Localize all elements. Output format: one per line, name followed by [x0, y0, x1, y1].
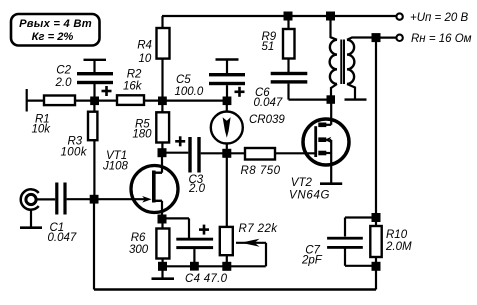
svg-text:CR039: CR039 — [249, 114, 285, 126]
label R5 value — [132, 118, 152, 140]
info box Pvyh/Kg — [11, 14, 100, 46]
label R1 value — [32, 114, 52, 136]
capacitor C5 — [216, 58, 239, 61]
capacitor C4 — [176, 238, 213, 241]
resistor R3 — [93, 101, 95, 112]
resistor R1 — [44, 96, 75, 106]
potentiometer R7 — [226, 153, 228, 227]
svg-text:16k: 16k — [123, 81, 143, 93]
label VT2 VN64G — [289, 177, 330, 201]
svg-text:R6: R6 — [131, 232, 146, 244]
resistor R8 — [227, 152, 245, 154]
junction Rn output node — [372, 33, 381, 42]
junction C3/CR039/R8/R7 — [222, 149, 231, 158]
junction node C5/CR039 — [223, 97, 232, 106]
resistor R2 — [117, 95, 144, 105]
svg-text:C5: C5 — [176, 74, 191, 86]
svg-text:R10: R10 — [386, 229, 408, 241]
svg-text:R2: R2 — [127, 68, 142, 80]
svg-text:2pF: 2pF — [301, 255, 323, 267]
svg-text:0.047: 0.047 — [254, 97, 283, 109]
svg-text:C2: C2 — [56, 64, 71, 76]
capacitor C2 — [84, 59, 107, 61]
wire Rn output lead — [376, 36, 396, 38]
svg-text:VT2: VT2 — [291, 177, 313, 189]
junction R10/C7 bottom — [372, 262, 381, 271]
svg-text:2.0: 2.0 — [188, 183, 206, 195]
svg-text:R4: R4 — [137, 40, 152, 52]
svg-text:R8 750: R8 750 — [241, 165, 281, 177]
label C2 value — [55, 64, 73, 89]
capacitor C6 — [271, 72, 308, 75]
ground VT2 source — [320, 182, 342, 185]
junction C4 bottom node — [190, 262, 199, 271]
svg-text:51: 51 — [262, 41, 275, 53]
svg-text:J108: J108 — [102, 161, 129, 173]
svg-text:Рвых = 4 Вт: Рвых = 4 Вт — [19, 18, 92, 30]
input connector XS1 — [21, 189, 39, 209]
junction R10/C7 top — [372, 213, 381, 222]
junction node R2/R4/R5 — [158, 97, 167, 106]
junction R9 top rail — [284, 12, 293, 21]
wire feedback bottom rail — [375, 266, 377, 289]
svg-text:VN64G: VN64G — [289, 189, 330, 201]
current diode CR039 — [226, 101, 228, 154]
wire bias rail — [27, 99, 227, 101]
label C5 value — [175, 74, 204, 98]
junction R5/VT1 drain/C3 — [158, 148, 167, 157]
label VT1 J108 — [102, 150, 129, 173]
junction VT1 gate node — [90, 195, 99, 204]
ground R6 — [161, 266, 163, 277]
label C7 value — [301, 244, 323, 266]
wire top +U rail — [162, 15, 396, 17]
terminal Rn — [396, 35, 402, 41]
svg-text:+Uп = 20 В: +Uп = 20 В — [410, 12, 468, 24]
label R2 value — [123, 68, 143, 92]
svg-text:2.0: 2.0 — [55, 77, 73, 89]
transformer T1 — [331, 16, 338, 40]
mosfet VT2 — [303, 119, 349, 165]
wire VT1 source to C4 — [162, 217, 189, 219]
svg-text:300: 300 — [129, 244, 149, 256]
svg-text:R7 22k: R7 22k — [239, 223, 279, 235]
junction C6/primary/VT2 drain — [327, 95, 336, 104]
junction transformer primary top rail — [326, 12, 335, 21]
ground bar left of R1 — [26, 89, 28, 112]
svg-text:10: 10 — [139, 53, 152, 65]
svg-text:Rн = 16 Ом: Rн = 16 Ом — [411, 33, 472, 45]
svg-text:0.047: 0.047 — [48, 232, 77, 244]
label C1 value — [48, 222, 77, 244]
resistor R5 — [156, 112, 169, 142]
capacitor C7 — [345, 216, 372, 218]
ground input — [30, 210, 32, 228]
label R10 value — [385, 229, 412, 253]
wire bottom node — [162, 265, 266, 267]
svg-text:Кг = 2%: Кг = 2% — [32, 31, 74, 43]
junction VT1 source node — [158, 215, 167, 224]
wire R10 branch vertical — [375, 38, 377, 218]
junction node R1/R2/C2/R3 — [90, 97, 99, 106]
label R9 value — [262, 31, 277, 53]
resistor R9 — [287, 16, 289, 29]
resistor R6 — [161, 219, 163, 228]
terminal +Up — [396, 13, 402, 19]
label R4 value — [137, 40, 152, 65]
svg-text:180: 180 — [132, 129, 152, 141]
svg-text:100.0: 100.0 — [175, 86, 204, 98]
jfet VT1 — [131, 166, 178, 213]
ground transformer secondary — [345, 98, 367, 100]
svg-text:C4 47.0: C4 47.0 — [185, 273, 228, 285]
label R6 value — [129, 232, 149, 256]
svg-text:100k: 100k — [61, 146, 88, 158]
capacitor C3 — [162, 152, 188, 154]
label C3 value — [188, 174, 206, 195]
label C6 value — [254, 87, 283, 109]
svg-text:2.0M: 2.0M — [385, 241, 412, 253]
svg-text:10k: 10k — [32, 124, 52, 136]
capacitor C1 — [55, 183, 58, 215]
label R3 value — [61, 136, 88, 159]
resistor R10 — [375, 218, 377, 227]
junction R6 bottom node — [158, 262, 167, 271]
label output power box — [19, 18, 92, 43]
junction R7 bottom node — [222, 262, 231, 271]
resistor R4 — [161, 16, 163, 28]
